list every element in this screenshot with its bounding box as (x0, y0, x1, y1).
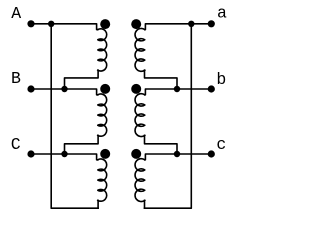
junction node row C / winding B1 (61, 151, 67, 157)
svg-text:B: B (11, 69, 21, 88)
wire row c from winding jog to terminal (145, 154, 212, 160)
wire row a from winding jog to terminal (145, 24, 212, 30)
junction node a on right bus (188, 21, 194, 27)
polarity dot winding C1 (100, 149, 110, 159)
junction node row B / winding A1 (61, 86, 67, 92)
wire winding A1 bottom to node on row B (65, 70, 99, 89)
svg-text:c: c (216, 135, 226, 154)
terminal dot B (27, 85, 34, 92)
polarity dot winding B1 (100, 84, 110, 94)
winding c2 (right column, phase c) (135, 159, 145, 202)
wire winding a2 bottom to node on row b (145, 70, 178, 89)
wire winding B1 bottom to node on row C (65, 135, 99, 154)
wire bus left: node A down and along bottom to winding C1 bottom (51, 24, 98, 208)
wire winding C1 bottom to left bus bottom (97, 200, 99, 208)
junction node row c / winding b2 (174, 151, 180, 157)
terminal dot c (208, 150, 215, 157)
terminal dot b (208, 85, 215, 92)
winding b2 (right column, phase b) (135, 94, 145, 137)
svg-text:A: A (11, 4, 21, 23)
wire row B from terminal to winding jog (31, 89, 98, 95)
terminal dot C (27, 150, 34, 157)
svg-text:a: a (217, 4, 227, 23)
polarity dot winding a2 (131, 19, 141, 29)
junction node A on left bus (48, 21, 54, 27)
terminal dot a (208, 20, 215, 27)
winding a2 (right column, phase a) (135, 28, 145, 71)
wire row b from winding jog to terminal (145, 89, 212, 95)
wire winding b2 bottom to node on row c (145, 135, 178, 154)
winding A1 (left column, phase A) (98, 29, 107, 71)
svg-text:C: C (11, 135, 21, 154)
junction node row b / winding a2 (174, 86, 180, 92)
polarity dot winding c2 (131, 149, 141, 159)
winding B1 (left column, phase B) (98, 94, 107, 136)
wire row A from terminal to winding jog (31, 24, 98, 30)
wire bus right: node a down and along bottom to winding c2 bottom (145, 24, 192, 208)
terminal dot A (27, 20, 34, 27)
wire winding c2 bottom to right bus bottom (144, 200, 146, 208)
winding C1 (left column, phase C) (98, 159, 107, 201)
svg-text:b: b (216, 70, 226, 89)
polarity dot winding b2 (131, 84, 141, 94)
polarity dot winding A1 (100, 19, 110, 29)
wire row C from terminal to winding jog (31, 154, 98, 160)
